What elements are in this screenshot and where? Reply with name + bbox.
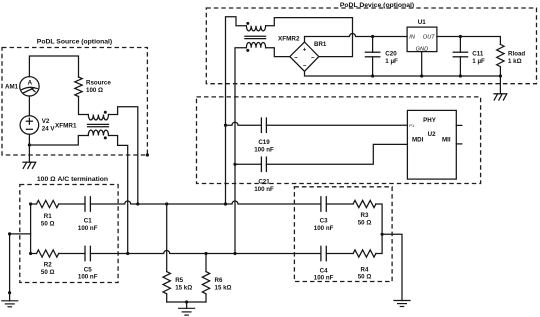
wire XFMR1 bottom right down to rail2 bbox=[109, 136, 128, 254]
wire V2 bottom bbox=[28, 134, 30, 145]
svg-text:Rload: Rload bbox=[508, 51, 525, 58]
resistor R6 bbox=[202, 254, 209, 303]
svg-text:V2: V2 bbox=[42, 118, 50, 125]
wire XFMR2 bottom right to BR1 left bbox=[266, 48, 290, 57]
capacitor C5 bbox=[85, 246, 90, 260]
node wire2 start on line B bbox=[233, 163, 236, 166]
svg-text:1 µF: 1 µF bbox=[472, 58, 485, 65]
wire MDI pair bottom bbox=[235, 163, 261, 165]
wire row2 left bbox=[31, 253, 37, 255]
svg-text:C21: C21 bbox=[258, 179, 270, 186]
svg-text:1 µF: 1 µF bbox=[385, 58, 398, 65]
PHY U2 box bbox=[407, 110, 456, 179]
ground (rake) PoDL device bbox=[494, 76, 507, 100]
svg-text:15 kΩ: 15 kΩ bbox=[175, 285, 192, 292]
wire AM1 to V2 bbox=[28, 96, 30, 116]
wire C3 to R3 bbox=[326, 203, 353, 205]
transformer XFMR1 bbox=[88, 111, 109, 140]
pin stub U2 right top bbox=[456, 124, 462, 126]
wire row1 left bbox=[31, 203, 37, 205]
wire XFMR1 top right down to rail1 bbox=[109, 107, 138, 204]
svg-text:C20: C20 bbox=[385, 51, 397, 58]
svg-text:C1: C1 bbox=[84, 218, 92, 225]
wire R4 right up bbox=[376, 234, 382, 253]
svg-text:100 nF: 100 nF bbox=[314, 225, 334, 232]
node rail2 line B bbox=[233, 252, 236, 255]
svg-text:C5: C5 bbox=[84, 266, 92, 273]
svg-text:OUT: OUT bbox=[423, 35, 435, 41]
wire BR1 plus to DC rail with hop bbox=[305, 34, 408, 43]
svg-text:U1: U1 bbox=[418, 19, 426, 26]
wire R5 R6 bottom bbox=[167, 301, 206, 303]
wire MDI pair top with hop over line B bbox=[226, 122, 262, 125]
node C11 top bbox=[459, 35, 462, 38]
ground (rake) below source bbox=[23, 145, 36, 168]
resistor R4 bbox=[353, 250, 376, 257]
node V2 bottom bbox=[28, 143, 31, 146]
svg-text:50 Ω: 50 Ω bbox=[358, 219, 372, 226]
svg-text:R2: R2 bbox=[44, 262, 52, 269]
svg-text:R6: R6 bbox=[215, 277, 223, 284]
svg-text:50 Ω: 50 Ω bbox=[41, 220, 55, 227]
node wire1 start on line A bbox=[224, 124, 227, 127]
node rail1 R5 bbox=[165, 202, 168, 205]
bridge rectifier BR1 bbox=[290, 42, 319, 71]
wire U1 OUT rail bbox=[437, 37, 501, 45]
svg-text:C11: C11 bbox=[472, 51, 484, 58]
svg-text:100 nF: 100 nF bbox=[314, 275, 334, 282]
svg-text:50 Ω: 50 Ω bbox=[41, 269, 55, 276]
svg-text:100 nF: 100 nF bbox=[254, 146, 274, 153]
svg-text:100 nF: 100 nF bbox=[78, 225, 98, 232]
svg-text:C4: C4 bbox=[320, 267, 328, 274]
wire termination left tee bbox=[30, 204, 32, 254]
wire C4 to R4 bbox=[326, 253, 353, 255]
capacitor C20 bbox=[365, 37, 379, 77]
ground (earth) below R5 R6 bbox=[179, 302, 195, 315]
svg-text:+: + bbox=[303, 47, 307, 54]
transformer XFMR2 bbox=[245, 22, 266, 52]
wire line A XFMR2 top to rail1 bbox=[226, 17, 247, 204]
wire Rsource to XFMR1 bbox=[79, 97, 89, 115]
svg-text:Rsource: Rsource bbox=[86, 79, 111, 86]
svg-text:R4: R4 bbox=[361, 266, 369, 273]
ground (earth) bottom left bbox=[2, 293, 18, 307]
svg-text:24 V: 24 V bbox=[42, 125, 56, 132]
node row2 left bbox=[29, 252, 32, 255]
wire V2 bottom to XFMR1 bbox=[29, 136, 88, 146]
capacitor C1 bbox=[85, 197, 90, 211]
svg-text:100 Ω: 100 Ω bbox=[86, 87, 103, 94]
right termination dashed box bbox=[294, 187, 392, 282]
svg-text:R1: R1 bbox=[44, 213, 52, 220]
source V2 bbox=[20, 116, 39, 135]
svg-text:P1: P1 bbox=[409, 123, 415, 128]
svg-text:1 kΩ: 1 kΩ bbox=[508, 58, 522, 65]
node termination mid bbox=[381, 233, 384, 236]
svg-text:R5: R5 bbox=[175, 277, 183, 284]
svg-text:−: − bbox=[303, 63, 307, 70]
svg-text:MDI: MDI bbox=[412, 137, 424, 144]
wire U1 GND bbox=[421, 52, 423, 76]
ground (earth) bottom right bbox=[394, 301, 410, 307]
pin stub U2 right bottom bbox=[456, 143, 462, 145]
svg-text:XFMR1: XFMR1 bbox=[55, 122, 77, 129]
node row1 left bbox=[29, 202, 32, 205]
svg-text:50 Ω: 50 Ω bbox=[358, 274, 372, 281]
svg-text:BR1: BR1 bbox=[314, 41, 327, 48]
svg-text:IN: IN bbox=[409, 35, 416, 41]
wire tee to ground bbox=[10, 234, 31, 293]
wire top rail source bbox=[29, 56, 78, 77]
resistor R1 bbox=[37, 200, 59, 207]
wire R3 right down bbox=[376, 204, 382, 234]
node C11 bottom bbox=[459, 74, 462, 77]
capacitor C19 bbox=[261, 118, 266, 132]
PHY dashed box bbox=[197, 97, 481, 184]
wire line B XFMR2 bottom to rail2 bbox=[235, 48, 246, 254]
node above ground bbox=[8, 291, 11, 294]
node rail1 line A bbox=[224, 202, 227, 205]
node rail2 xfmr1 bottom bbox=[126, 252, 129, 255]
wire C19 to U2 P1 bbox=[266, 124, 407, 126]
node Rload bottom bbox=[499, 74, 502, 77]
wire C21 to U2 MDI bbox=[266, 144, 407, 164]
wire R1 to C1 bbox=[59, 203, 85, 205]
svg-text:XFMR2: XFMR2 bbox=[278, 35, 300, 42]
node rail2 R6 bbox=[204, 252, 207, 255]
svg-text:MII: MII bbox=[442, 137, 451, 144]
svg-text:~: ~ bbox=[294, 55, 298, 62]
svg-text:U2: U2 bbox=[428, 131, 436, 138]
svg-text:C3: C3 bbox=[320, 218, 328, 225]
svg-text:100 nF: 100 nF bbox=[78, 274, 98, 281]
resistor Rload bbox=[497, 44, 504, 76]
node rail1 xfmr1 top bbox=[136, 202, 139, 205]
resistor R3 bbox=[353, 200, 376, 207]
capacitor C4 bbox=[321, 246, 326, 260]
wire rail2 with hop over R5 lead bbox=[90, 251, 321, 254]
svg-text:PHY: PHY bbox=[423, 117, 437, 124]
svg-text:R3: R3 bbox=[361, 212, 369, 219]
svg-text:100 Ω A/C termination: 100 Ω A/C termination bbox=[37, 176, 108, 183]
wire R2 to C5 bbox=[59, 253, 85, 255]
wire XFMR2 top right to BR1 right bbox=[266, 18, 353, 57]
svg-text:15 kΩ: 15 kΩ bbox=[215, 285, 232, 292]
capacitor C11 bbox=[453, 37, 467, 77]
node C20 top bbox=[371, 35, 374, 38]
svg-text:AM1: AM1 bbox=[5, 84, 19, 91]
node corner dot on source box bbox=[146, 153, 149, 156]
svg-text:A: A bbox=[28, 80, 33, 87]
wire termination mid to ground bbox=[382, 234, 402, 300]
ammeter AM1 bbox=[20, 77, 39, 96]
svg-text:100 nF: 100 nF bbox=[254, 186, 274, 193]
svg-text:~: ~ bbox=[311, 55, 315, 62]
node R5R6 mid bbox=[185, 300, 188, 303]
A/C termination dashed box bbox=[20, 185, 118, 283]
PoDL Source dashed box bbox=[2, 48, 147, 156]
resistor R5 bbox=[163, 204, 170, 302]
wire BR1 minus to bottom rail bbox=[305, 71, 501, 76]
resistor R2 bbox=[37, 250, 59, 257]
node C20 bottom bbox=[371, 74, 374, 77]
node tee corner bbox=[8, 232, 11, 235]
resistor Rsource bbox=[75, 77, 82, 97]
capacitor C3 bbox=[321, 197, 326, 211]
PoDL Device dashed box bbox=[206, 8, 536, 84]
node U1 GND bottom bbox=[420, 74, 423, 77]
regulator U1 bbox=[407, 27, 437, 52]
capacitor C21 bbox=[261, 157, 266, 171]
svg-text:C19: C19 bbox=[258, 139, 270, 146]
svg-text:PoDL Source (optional): PoDL Source (optional) bbox=[37, 39, 112, 46]
wire rail1 with hop at x127.7 bbox=[90, 201, 321, 204]
